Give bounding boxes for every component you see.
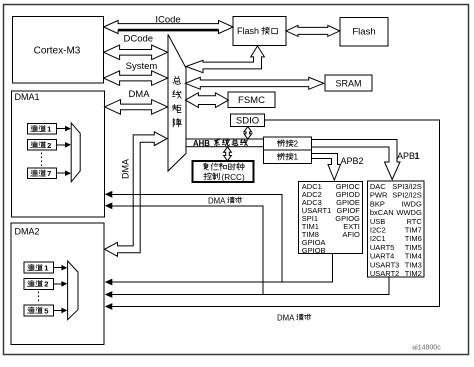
DMA2 arbiter funnel: [68, 261, 78, 320]
DMA1 request wire A (from APB2 via node): [110, 194, 282, 282]
svg-text:AHB: AHB: [193, 139, 210, 148]
svg-text:2: 2: [294, 139, 299, 148]
svg-text:1: 1: [294, 153, 299, 162]
svg-text:DMA: DMA: [121, 159, 131, 179]
svg-text:TIM3: TIM3: [405, 260, 422, 269]
flash interface bus arrow (bent, matrix to Flash IF): [186, 46, 264, 73]
svg-text:RTC: RTC: [407, 217, 423, 226]
block FSMC: [228, 92, 275, 108]
svg-text:TIM4: TIM4: [405, 252, 422, 261]
svg-text:DMA: DMA: [277, 314, 295, 323]
svg-text:USART2: USART2: [370, 269, 399, 278]
DMA2 channel 通道5: [24, 305, 54, 316]
APB1 peripherals block: [368, 181, 424, 277]
block DMA2: [11, 223, 104, 344]
DMA2 request wire 2 from APB1: [110, 277, 389, 294]
svg-text:APB: APB: [397, 151, 415, 161]
svg-text:DCode: DCode: [124, 34, 154, 45]
APB2 peripherals block: [299, 181, 363, 253]
bridge2 桥接2: [264, 137, 312, 150]
svg-text:APB2: APB2: [341, 156, 364, 166]
block Flash: [340, 17, 388, 46]
svg-text:TIM7: TIM7: [405, 226, 422, 235]
svg-text:SPI3/I2S: SPI3/I2S: [392, 182, 422, 191]
svg-text:UART5: UART5: [370, 243, 394, 252]
FSMC bus arrow: [185, 93, 228, 108]
DMA1 channel 通道1: [27, 123, 56, 134]
svg-text:1: 1: [415, 151, 420, 161]
DMA1 channel dots: [41, 153, 43, 167]
ICode bus arrow: [104, 20, 233, 33]
svg-text:I2C2: I2C2: [370, 226, 386, 235]
DMA2 bus arrow (bent, DMA2 to matrix): [105, 132, 168, 256]
svg-text:DAC: DAC: [370, 182, 386, 191]
svg-text:(RCC): (RCC): [222, 173, 245, 182]
block SRAM: [325, 75, 372, 91]
bus matrix 总线矩阵: [168, 34, 186, 171]
svg-text:IWDG: IWDG: [401, 199, 422, 208]
DMA1 channel 通道7: [27, 168, 56, 179]
svg-text:FSMC: FSMC: [238, 95, 265, 106]
svg-text:TIM6: TIM6: [405, 234, 422, 243]
svg-text:Flash: Flash: [237, 26, 259, 36]
svg-text:ai14800c: ai14800c: [412, 345, 441, 352]
Flash IF to Flash arrow: [286, 25, 340, 36]
DMA2 channel 通道2: [24, 278, 54, 289]
DMA1 channel arrows: [56, 128, 66, 130]
svg-text:I2C1: I2C1: [370, 234, 386, 243]
SDIO-AHB arrow: [244, 127, 252, 139]
svg-text:SDIO: SDIO: [236, 115, 259, 126]
bridge1 桥接1: [264, 150, 312, 164]
svg-text:UART4: UART4: [370, 252, 394, 261]
block DMA1: [12, 91, 105, 217]
APB1 wire and down arrow: [312, 140, 401, 180]
svg-text:GPIOB: GPIOB: [302, 246, 326, 255]
svg-text:ICode: ICode: [155, 14, 180, 25]
svg-text:Cortex-M3: Cortex-M3: [34, 46, 81, 57]
svg-text:DMA: DMA: [128, 89, 150, 100]
svg-text:Flash: Flash: [352, 27, 375, 38]
block Flash 接口 (flash interface): [233, 17, 286, 46]
svg-text:bxCAN: bxCAN: [370, 208, 394, 217]
DMA2 request wire 3 from SDIO: [110, 120, 440, 307]
AHB system bus bar: [186, 139, 264, 147]
svg-text:2: 2: [44, 280, 48, 289]
svg-text:WWDG: WWDG: [396, 208, 422, 217]
svg-text:USART3: USART3: [370, 260, 399, 269]
svg-text:DMA2: DMA2: [15, 226, 40, 236]
svg-text:DMA1: DMA1: [15, 92, 40, 102]
block SDIO: [231, 114, 265, 126]
DMA1 channel 通道2: [27, 140, 56, 151]
svg-text:BKP: BKP: [370, 199, 385, 208]
DMA1 request wire B (from APB1 via node): [110, 206, 263, 295]
DMA2 channel arrows: [54, 267, 63, 269]
svg-text:TIM2: TIM2: [405, 269, 422, 278]
svg-text:SPI2/I2S: SPI2/I2S: [392, 191, 422, 200]
svg-text:2: 2: [47, 141, 51, 150]
svg-text:PWR: PWR: [370, 191, 388, 200]
DMA2 channel dots: [38, 292, 40, 304]
svg-text:TIM5: TIM5: [405, 243, 422, 252]
DMA2 request wire 1 from APB2: [110, 254, 333, 282]
svg-text:System: System: [126, 61, 158, 72]
SRAM bus arrow: [185, 77, 323, 89]
svg-text:AFIO: AFIO: [342, 230, 360, 239]
DMA1 bus arrow: [105, 100, 168, 115]
svg-text:SRAM: SRAM: [335, 78, 361, 88]
svg-text:7: 7: [47, 169, 51, 178]
DMA1 arbiter funnel: [71, 123, 80, 182]
DCode bus arrow: [104, 45, 168, 60]
RCC block 复位和时钟控制: [193, 161, 254, 182]
svg-text:DMA: DMA: [208, 197, 226, 206]
AHB-RCC arrow: [224, 147, 232, 161]
svg-text:USB: USB: [370, 217, 385, 226]
System bus arrow: [104, 71, 168, 86]
APB2 wire and down arrow: [312, 154, 341, 181]
block Cortex-M3: [13, 17, 104, 83]
DMA2 channel 通道1: [24, 262, 54, 273]
